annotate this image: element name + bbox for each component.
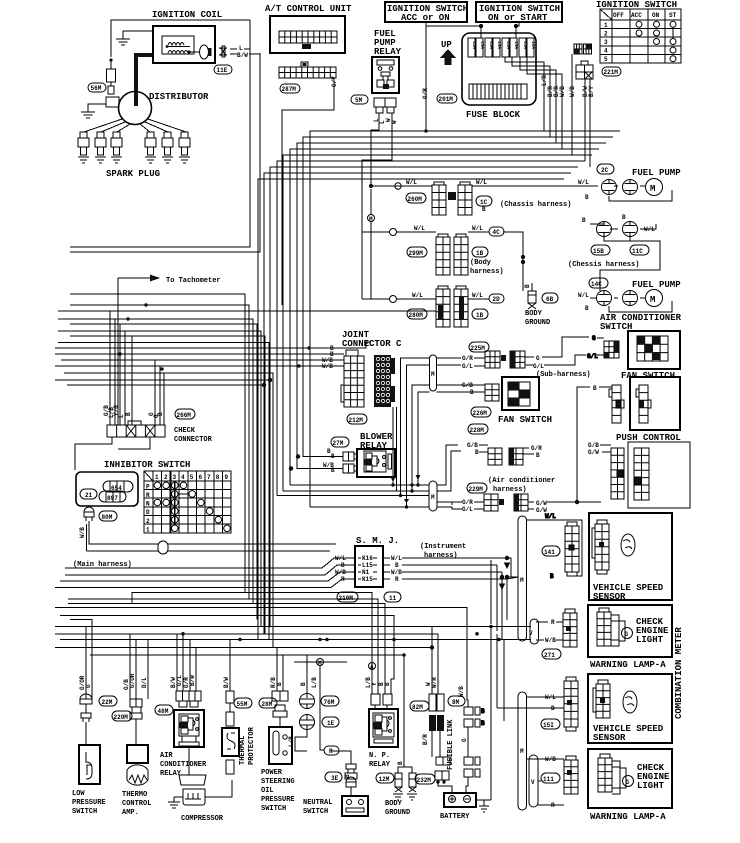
svg-text:SENSOR: SENSOR (593, 733, 626, 743)
svg-text:8M: 8M (452, 699, 460, 706)
connector ac harness top pair (479, 445, 542, 465)
svg-text:W/B: W/B (545, 637, 556, 644)
svg-text:IGNITION COIL: IGNITION COIL (152, 10, 222, 20)
connector pair fan sub (474, 351, 544, 370)
connector fan switch left small (474, 384, 499, 401)
svg-text:PROTECTOR: PROTECTOR (248, 726, 256, 765)
connector 1B oval row3 (472, 309, 488, 319)
ground instrument left joins battery ground (481, 708, 491, 800)
svg-text:8: 8 (216, 474, 220, 481)
svg-text:(Sub-harness): (Sub-harness) (536, 371, 591, 379)
svg-text:B/W: B/W (237, 52, 248, 59)
svg-text:260M: 260M (408, 196, 423, 203)
node dark link row1 (448, 192, 456, 200)
connector 55M oval (234, 698, 252, 708)
svg-text:ON or START: ON or START (488, 13, 548, 23)
connector fuel pump relay lower (374, 98, 396, 113)
svg-text:CONTROL: CONTROL (122, 800, 151, 808)
svg-text:M: M (520, 577, 524, 584)
svg-text:4C: 4C (493, 229, 501, 236)
svg-text:G/L: G/L (176, 675, 183, 686)
node M circle main bus (317, 659, 324, 668)
label air conditioner harness (488, 477, 555, 494)
fuel pump 1 (602, 179, 663, 196)
svg-text:287M: 287M (282, 86, 297, 93)
svg-text:1B: 1B (476, 312, 484, 319)
svg-text:W/B: W/B (79, 527, 86, 538)
svg-text:G/R: G/R (462, 499, 473, 506)
connector 8M oval (448, 696, 465, 706)
svg-text:1: 1 (146, 526, 150, 533)
label row3 (412, 292, 483, 299)
svg-text:B: B (331, 453, 335, 460)
svg-text:4: 4 (604, 48, 608, 55)
label G/R G/L ac low (462, 499, 473, 513)
spark plugs (6) (78, 132, 190, 163)
svg-text:L/B: L/B (288, 736, 295, 747)
svg-text:harness): harness) (493, 486, 527, 494)
svg-text:W/B: W/B (458, 686, 465, 697)
svg-text:G/B: G/B (467, 442, 478, 449)
push control box (616, 377, 681, 443)
instrument harness label (420, 543, 466, 560)
svg-text:5M: 5M (355, 97, 363, 104)
label check connector wires (103, 405, 164, 418)
wire check connector tails (75, 437, 150, 470)
chassis harness row2 connectors (568, 214, 655, 269)
svg-text:55M: 55M (237, 701, 248, 708)
svg-text:2: 2 (164, 474, 168, 481)
battery (440, 793, 489, 821)
connector pill V lower (529, 755, 538, 807)
connector 212M oval (347, 414, 367, 424)
relay blower (357, 449, 395, 477)
connector 28M oval (259, 698, 277, 708)
wire blower relay stubs (289, 455, 299, 470)
svg-text:G/L: G/L (462, 363, 473, 370)
connector strip row1 b (458, 182, 472, 215)
connector 225M oval (469, 342, 489, 352)
fuel pump relay label (374, 29, 402, 57)
svg-text:W/L: W/L (578, 292, 589, 299)
label SMJ left wires (335, 555, 346, 583)
wire ign sw to fuse block (426, 22, 519, 38)
svg-text:THERMO: THERMO (122, 791, 147, 799)
connector 76M round (300, 694, 340, 709)
svg-text:STEERING: STEERING (261, 778, 295, 786)
svg-text:15I: 15I (543, 722, 554, 729)
vehicle speed sensor 1 box (589, 513, 672, 602)
svg-text:SWITCH: SWITCH (303, 808, 328, 816)
svg-text:B: B (481, 720, 485, 727)
svg-text:(Chessis harness): (Chessis harness) (568, 261, 639, 269)
label bottom drops (79, 673, 465, 765)
svg-text:11C: 11C (632, 248, 643, 255)
svg-text:3: 3 (604, 39, 608, 46)
svg-text:L/R: L/R (541, 75, 548, 86)
connector 48M oval (155, 705, 173, 715)
wire row1 W/L fuel pump (371, 186, 672, 201)
svg-text:AMP.: AMP. (122, 809, 139, 817)
svg-text:R: R (551, 619, 555, 626)
svg-text:229M: 229M (469, 486, 484, 493)
node main harness dots (181, 625, 501, 657)
svg-text:B: B (536, 452, 540, 459)
svg-text:RELAY: RELAY (374, 47, 402, 57)
svg-text:B/W: B/W (189, 675, 196, 686)
compressor (168, 747, 232, 823)
connector 1B oval row2 (472, 247, 488, 257)
svg-text:M: M (431, 371, 435, 378)
wire JC-C inputs (336, 342, 370, 366)
svg-text:15A: 15A (505, 41, 511, 49)
connector A/T grid 2 (279, 62, 336, 78)
svg-text:V: V (529, 630, 533, 637)
wire main harness rows (55, 558, 531, 767)
connector 11E oval (214, 65, 232, 74)
svg-text:W/L: W/L (472, 292, 483, 299)
svg-text:OFF: OFF (613, 12, 624, 19)
air conditioner relay (160, 691, 207, 778)
svg-text:W/L: W/L (578, 179, 589, 186)
svg-text:1C: 1C (480, 199, 488, 206)
low pressure switch (72, 694, 106, 816)
svg-text:W/B: W/B (569, 86, 576, 97)
svg-text:3E: 3E (331, 775, 339, 782)
wire G/Y from A/T (282, 78, 334, 305)
svg-text:B: B (593, 385, 597, 392)
svg-text:PRESSURE: PRESSURE (261, 796, 295, 804)
svg-text:CONNECTOR: CONNECTOR (174, 436, 213, 444)
svg-text:harness): harness) (470, 268, 504, 276)
wire meter rows lower (497, 697, 556, 781)
svg-text:B: B (482, 206, 486, 213)
fuel pump 2 (578, 290, 672, 313)
svg-text:M: M (431, 494, 435, 501)
svg-text:G/L: G/L (462, 506, 473, 513)
connector coil harness side (219, 46, 260, 57)
fan switch left box (498, 377, 552, 425)
svg-text:897: 897 (107, 495, 118, 502)
inhibitor table (144, 471, 231, 533)
connector JC-C white grid (341, 350, 364, 407)
connector 271 oval (542, 649, 561, 659)
svg-text:201M: 201M (439, 96, 454, 103)
svg-text:299M: 299M (409, 250, 424, 257)
label row2 (414, 225, 483, 232)
svg-text:B: B (384, 682, 391, 686)
connector 210M oval (337, 592, 358, 602)
svg-text:15A: 15A (513, 41, 519, 49)
inhibitor switch connector box (76, 472, 138, 506)
capacitor condenser (107, 60, 116, 94)
svg-text:CONDITIONER: CONDITIONER (160, 761, 207, 769)
connector 266M oval (175, 409, 195, 419)
svg-text:ON: ON (652, 12, 660, 19)
connector push control left (609, 385, 624, 423)
fusible link right column (461, 707, 480, 793)
svg-text:48M: 48M (158, 708, 169, 715)
svg-text:POWER: POWER (261, 769, 283, 777)
node condenser top dot (109, 58, 112, 61)
connector 82M oval (410, 701, 429, 711)
ignition coil HT terminal (200, 45, 212, 59)
connector 1C oval (476, 196, 492, 206)
svg-text:2: 2 (146, 518, 150, 525)
connector 15I oval (541, 719, 560, 729)
thermal protector (222, 691, 256, 774)
wire bus mid rows (277, 485, 429, 507)
label To Tachometer (118, 275, 221, 426)
connector 11 oval (384, 592, 401, 602)
body ground cylinder (524, 283, 558, 327)
label SMJ right wires (391, 555, 402, 583)
connector pill V cel1 (529, 619, 548, 644)
connector 228M oval (468, 424, 488, 434)
svg-text:SENSOR: SENSOR (593, 592, 626, 602)
svg-text:15A: 15A (471, 41, 477, 49)
wire instrument harness rows (402, 556, 518, 639)
connector pill M bus (429, 481, 437, 511)
wire 221M outputs (572, 54, 590, 128)
svg-text:B: B (300, 682, 307, 686)
node bus mid junctions (399, 475, 421, 509)
svg-text:NEUTRAL: NEUTRAL (303, 799, 332, 807)
ignition switch ON/START box (476, 2, 562, 23)
connector 229M oval (467, 483, 487, 493)
wire spark plug leads (84, 119, 186, 132)
distributor pickup box (106, 97, 119, 107)
connector 56M oval (88, 83, 106, 92)
svg-text:G: G (626, 779, 630, 786)
connector strip 15I (545, 677, 578, 731)
svg-text:SWITCH: SWITCH (261, 805, 286, 813)
svg-text:1: 1 (604, 22, 608, 29)
connector 2D oval row3 (390, 296, 428, 320)
svg-text:B/W: B/W (223, 677, 230, 688)
svg-text:3: 3 (173, 474, 177, 481)
check connector (107, 421, 213, 444)
svg-text:10A: 10A (530, 41, 536, 49)
node circle row2 left (390, 229, 397, 236)
svg-text:D: D (146, 509, 150, 516)
connector 221M block (576, 61, 593, 79)
svg-text:BODY: BODY (525, 310, 543, 318)
svg-text:L15: L15 (362, 562, 373, 569)
svg-text:GROUND: GROUND (385, 809, 410, 817)
svg-text:B: B (481, 708, 485, 715)
connector 80M area (84, 507, 117, 521)
svg-text:11E: 11E (217, 67, 228, 74)
svg-text:11: 11 (389, 595, 397, 602)
node pill feed arrows (391, 477, 396, 487)
svg-text:M: M (520, 748, 524, 755)
svg-text:DISTRIBUTOR: DISTRIBUTOR (149, 92, 209, 102)
svg-text:W/L: W/L (414, 225, 425, 232)
wire W/L to 141 strip (526, 513, 582, 580)
svg-text:232M: 232M (417, 777, 432, 784)
svg-text:LOW: LOW (72, 790, 85, 798)
svg-text:2C: 2C (601, 167, 609, 174)
svg-text:B: B (125, 412, 132, 416)
svg-text:G/W: G/W (536, 500, 547, 507)
node junction T row1 (395, 183, 401, 189)
svg-text:27M: 27M (333, 440, 344, 447)
svg-text:221M: 221M (604, 69, 619, 76)
ignition switch table (596, 0, 681, 63)
label W/L row1 (406, 179, 589, 213)
svg-text:B: B (585, 194, 589, 201)
svg-text:THERMAL: THERMAL (239, 736, 247, 765)
svg-text:220M: 220M (114, 714, 129, 721)
connector 12M oval (376, 773, 394, 783)
svg-text:B: B (550, 573, 554, 580)
svg-text:G: G (536, 355, 540, 362)
svg-text:N: N (146, 501, 150, 508)
check engine light 1 box (588, 605, 672, 657)
connector blower relay left (343, 452, 357, 473)
wire left-mid mesh horizontals (55, 294, 436, 648)
connector 4C oval (489, 227, 504, 236)
svg-text:FUEL PUMP: FUEL PUMP (632, 168, 681, 178)
wire B push control (577, 385, 612, 502)
connector fan switch right (604, 341, 619, 358)
node left mesh dots (118, 303, 310, 370)
svg-text:BATTERY: BATTERY (440, 813, 470, 821)
svg-text:1B: 1B (476, 250, 484, 257)
svg-text:GROUND: GROUND (525, 319, 550, 327)
svg-text:INHIBITOR SWITCH: INHIBITOR SWITCH (104, 460, 190, 470)
connector strip row2 a (436, 234, 450, 275)
wire fuse block outputs (505, 57, 562, 128)
svg-text:2: 2 (604, 30, 608, 37)
wire row3 (362, 232, 489, 299)
connector 1E round (300, 715, 340, 730)
svg-text:B: B (582, 217, 586, 224)
A/T control unit box (270, 16, 345, 53)
wire thick coil-to-distributor (136, 55, 153, 106)
svg-text:P: P (146, 484, 150, 491)
svg-text:G: G (85, 684, 92, 688)
connector 220M oval (112, 711, 132, 721)
svg-text:15A: 15A (496, 41, 502, 49)
wire pill M right risers (437, 445, 462, 509)
svg-text:6B: 6B (546, 296, 554, 303)
svg-text:R: R (146, 492, 150, 499)
svg-text:R: R (395, 576, 399, 583)
svg-text:1E: 1E (327, 720, 335, 727)
connector 14C oval (589, 278, 608, 288)
svg-text:B: B (397, 761, 404, 765)
wire G/R from ACC box (425, 22, 427, 131)
node R oval (324, 746, 339, 755)
neutral switch (303, 764, 368, 816)
svg-text:28M: 28M (262, 701, 273, 708)
label G/R G/L row (462, 355, 473, 370)
svg-text:L: L (239, 45, 243, 52)
relay fuel pump (372, 57, 399, 93)
svg-text:B: B (276, 682, 283, 686)
svg-text:226M: 226M (473, 410, 488, 417)
svg-text:G: G (592, 335, 596, 342)
connector 111 oval (541, 773, 560, 783)
svg-text:W/L: W/L (391, 555, 402, 562)
svg-text:271: 271 (544, 652, 555, 659)
svg-text:80M: 80M (102, 514, 113, 521)
svg-text:228M: 228M (470, 427, 485, 434)
svg-text:W/L: W/L (545, 513, 556, 520)
wire G to fan switch (542, 335, 604, 365)
wire G/W row (547, 500, 601, 503)
connector 22M oval (99, 696, 117, 706)
svg-text:W/L: W/L (406, 179, 417, 186)
svg-text:CHECK: CHECK (174, 427, 196, 435)
connector 5M oval (351, 95, 368, 104)
svg-text:W/L: W/L (412, 292, 423, 299)
fusible link column (422, 694, 455, 793)
svg-text:6: 6 (199, 474, 203, 481)
connector 3E oval (325, 772, 342, 782)
label JC-C wires (322, 345, 334, 370)
svg-text:N. P.: N. P. (369, 752, 390, 760)
svg-text:FUSE BLOCK: FUSE BLOCK (466, 110, 521, 120)
connector 226M oval (471, 407, 491, 417)
svg-text:L: L (118, 414, 125, 418)
svg-text:G/R: G/R (531, 445, 542, 452)
wire L/B to neutral (295, 729, 351, 764)
connector 287M oval (280, 84, 300, 93)
ignition coil label (152, 10, 222, 20)
svg-text:A/T CONTROL UNIT: A/T CONTROL UNIT (265, 4, 352, 14)
svg-text:COMPRESSOR: COMPRESSOR (181, 815, 224, 823)
svg-text:UP: UP (441, 40, 452, 50)
svg-text:Y/G: Y/G (113, 405, 120, 416)
svg-text:G/L: G/L (587, 353, 598, 360)
svg-text:15A: 15A (488, 41, 494, 49)
svg-text:Y: Y (371, 682, 378, 686)
connector 221M oval (602, 67, 621, 76)
svg-text:LIGHT: LIGHT (636, 635, 664, 645)
wire SMJ stubs (346, 558, 390, 579)
label blower relay wires (323, 448, 335, 474)
label G/B B ac harness top (467, 442, 479, 456)
connector 2C oval (597, 164, 614, 174)
svg-text:B/R: B/R (422, 734, 429, 745)
svg-text:harness): harness) (424, 552, 458, 560)
svg-text:5: 5 (604, 56, 608, 63)
connector pill M instrument (518, 516, 527, 641)
svg-text:82M: 82M (412, 704, 423, 711)
svg-text:D/L: D/L (141, 677, 148, 688)
svg-text:K16: K16 (362, 555, 373, 562)
connector pill M lower (518, 692, 527, 810)
blower relay label (360, 432, 393, 451)
ground ignition coil (116, 31, 153, 45)
connector pill main harness (158, 541, 168, 554)
svg-text:B: B (395, 562, 399, 569)
connector strip row3 a (436, 286, 450, 327)
label G/B B left fan (462, 382, 474, 396)
N.P. relay (369, 694, 398, 769)
air conditioner switch label (600, 313, 682, 332)
svg-text:12M: 12M (379, 776, 390, 783)
svg-text:W/L: W/L (476, 179, 487, 186)
thermo control amp (122, 699, 151, 817)
wire row2 (362, 232, 525, 291)
svg-text:212M: 212M (349, 417, 364, 424)
connector 2D oval (489, 294, 504, 303)
connector strip row1 a (432, 182, 446, 215)
